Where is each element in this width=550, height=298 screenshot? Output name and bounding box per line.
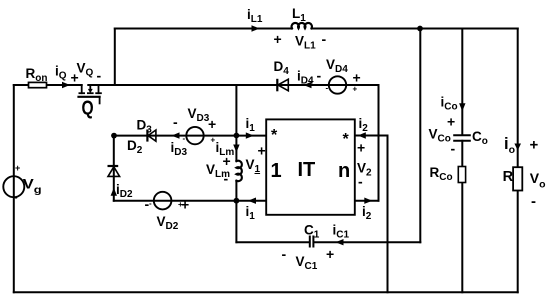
svg-text:+: + bbox=[326, 246, 334, 262]
arrow iCo bbox=[459, 103, 465, 111]
wire Co branch middle bbox=[461, 141, 463, 167]
wire vert Q-row to D3 row bbox=[235, 85, 237, 136]
inductor L1 coil bbox=[292, 23, 312, 28]
svg-text:-: - bbox=[317, 68, 322, 84]
current arrows bbox=[62, 25, 521, 245]
wire bottom pin row right bbox=[355, 200, 379, 202]
svg-text:-: - bbox=[183, 134, 186, 143]
arrow iD2 bbox=[111, 188, 117, 196]
wire Co branch lower bbox=[461, 183, 463, 293]
diode D4 bbox=[277, 79, 288, 92]
wire top pin row right bbox=[355, 135, 388, 137]
wire D3 row bbox=[114, 135, 266, 137]
source VD4 bbox=[329, 76, 346, 93]
source Vg bbox=[3, 176, 24, 197]
arrow iD3 bbox=[172, 132, 180, 138]
svg-text:+: + bbox=[530, 137, 539, 154]
svg-text:-: - bbox=[531, 193, 536, 210]
resistor RCo bbox=[458, 167, 465, 183]
svg-text:*: * bbox=[271, 127, 278, 144]
svg-text:+: + bbox=[258, 143, 266, 159]
svg-text:-: - bbox=[15, 193, 18, 203]
diode D2 bbox=[108, 166, 120, 176]
svg-text:Q: Q bbox=[82, 97, 94, 119]
svg-text:-: - bbox=[282, 246, 287, 262]
wire C1 row right bbox=[314, 241, 420, 243]
resistor Ron bbox=[29, 82, 47, 87]
wire Lm branch lower to C1 row bbox=[235, 181, 237, 242]
svg-text:+: + bbox=[208, 116, 216, 132]
wire Ron row bbox=[14, 84, 82, 86]
resistor R bbox=[513, 167, 522, 190]
svg-text:+: + bbox=[15, 163, 20, 173]
wire Co branch upper bbox=[461, 29, 463, 136]
svg-text:-: - bbox=[224, 171, 229, 187]
arrow i2 bottom bbox=[364, 198, 372, 204]
source VD3 bbox=[186, 127, 203, 144]
wire C1 row left bbox=[236, 241, 309, 243]
svg-text:-: - bbox=[358, 174, 363, 190]
arrow i1 top bbox=[246, 132, 254, 138]
svg-text:R: R bbox=[503, 169, 514, 185]
arrow iL1 bbox=[252, 25, 260, 31]
svg-text:-: - bbox=[173, 114, 178, 130]
inductor Lm coil bbox=[236, 161, 241, 181]
node junction Lm top bbox=[234, 133, 240, 139]
node junction Lm bottom bbox=[234, 198, 240, 204]
svg-text:+: + bbox=[357, 140, 365, 156]
transistor Q substrate arrow bbox=[88, 89, 93, 94]
svg-text:+: + bbox=[353, 70, 361, 86]
capacitor Co bbox=[453, 135, 471, 141]
arrow iC1 bbox=[336, 239, 344, 245]
arrow i2 top bbox=[358, 132, 366, 138]
svg-text:-: - bbox=[322, 31, 327, 47]
arrow i1 bottom bbox=[248, 198, 256, 204]
wire top rail bbox=[115, 28, 292, 30]
svg-text:*: * bbox=[343, 131, 350, 148]
svg-text:-: - bbox=[326, 84, 329, 93]
wire right rail bbox=[517, 29, 519, 293]
svg-text:+: + bbox=[353, 85, 358, 94]
svg-text:1: 1 bbox=[271, 160, 282, 182]
transistor Q (MOSFET) bbox=[79, 85, 101, 103]
svg-text:+: + bbox=[178, 200, 183, 209]
op-amp: ideal transformer block IT bbox=[266, 119, 355, 214]
wire Lm branch upper bbox=[235, 136, 237, 162]
svg-text:-: - bbox=[451, 141, 456, 157]
wire bottom rail bbox=[14, 291, 518, 293]
svg-text:+: + bbox=[447, 114, 455, 130]
wire Q to D4 row bbox=[88, 84, 378, 86]
svg-text:IT: IT bbox=[298, 159, 316, 181]
arrow iD4 bbox=[304, 82, 312, 88]
arrow iQ bbox=[62, 82, 70, 88]
wire top-left drop bbox=[114, 29, 116, 86]
wire D2 vertical bbox=[113, 136, 115, 201]
diode D3 bbox=[147, 130, 156, 142]
node junction D3 row left bbox=[111, 133, 117, 139]
svg-text:+: + bbox=[274, 31, 282, 47]
svg-text:-: - bbox=[149, 199, 152, 208]
wire secondary drop to bottom rail bbox=[387, 136, 389, 293]
svg-text:n: n bbox=[338, 160, 350, 182]
source VD2 bbox=[154, 192, 172, 210]
arrow iLm bbox=[233, 145, 239, 153]
wire D4 drop to bottom pin bbox=[378, 85, 380, 201]
svg-text:-: - bbox=[97, 68, 102, 84]
svg-text:+: + bbox=[223, 153, 231, 169]
arrow io bbox=[514, 144, 521, 151]
wire bottom pin row left bbox=[114, 200, 266, 202]
wire C1 row up to top rail bbox=[419, 29, 421, 243]
node junction top rail bbox=[417, 26, 423, 32]
wire left rail bbox=[13, 85, 15, 292]
capacitor C1 bbox=[310, 236, 314, 248]
